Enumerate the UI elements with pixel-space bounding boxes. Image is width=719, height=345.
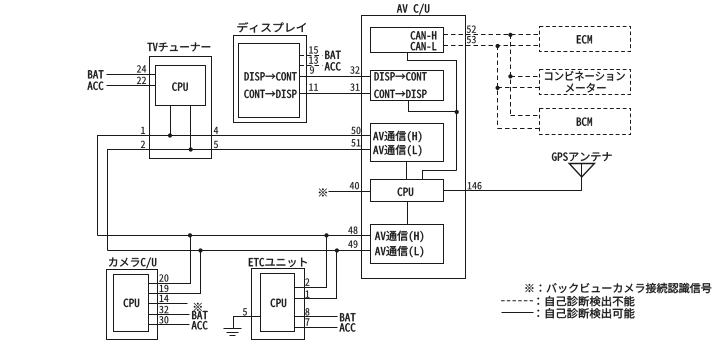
pin 52 label (467, 26, 476, 33)
wire BAT to TV tuner pin 24 (107, 74, 156, 76)
pin 8 label (305, 308, 309, 315)
wire ETC pin 5 to ground (234, 317, 261, 329)
AV-bus H lower wire (to AV C/U pin 48) (98, 235, 371, 237)
pin 32 label (350, 66, 359, 73)
ground symbol (224, 328, 242, 330)
pin 146 label (468, 182, 482, 189)
wire ACC to TV tuner pin 22 (107, 85, 156, 87)
junction dot ETC pin 1 (335, 248, 339, 252)
ETC unit ETCユニット label (249, 258, 307, 267)
AV通信(L) label lower (375, 246, 423, 257)
ACC label (camera) (192, 321, 208, 329)
pin 14 label (160, 295, 169, 302)
CONT→DISP label (display) (244, 90, 296, 98)
AV comm box lower (371, 225, 444, 264)
pin 1 label (ETC) (306, 291, 310, 298)
dashed CAN-H wire pin 52 to ECM (444, 34, 540, 36)
wire camera pin 14 backview signal (149, 303, 188, 305)
pin 53 label (467, 36, 476, 43)
wire ETC pin 1 to AV-bus L (295, 251, 337, 299)
pin 11 label (309, 84, 318, 91)
AV通信(H) label upper (373, 131, 421, 142)
wire camera pin 19 to AV-bus L (149, 251, 201, 294)
pin 13 label (309, 56, 318, 63)
GPS antenna symbol (569, 164, 594, 178)
legend note backview camera signal (525, 283, 711, 293)
camera unit カメラC/U label (109, 258, 156, 269)
pin 48 label (348, 227, 357, 234)
wire camera pin 30 ACC (149, 324, 190, 326)
junction dot internal bus (455, 110, 459, 114)
TV tuner unit TVチューナー label (147, 43, 210, 52)
wire display pin 11 to AV C/U pin 31 (300, 93, 371, 95)
wire camera pin 32 BAT (149, 314, 190, 316)
pin 2 label (141, 141, 145, 148)
AV通信(H) label lower (375, 231, 423, 242)
wire TV CPU pin to AV bus L (190, 106, 192, 150)
junction dot CAN-H branch (508, 33, 512, 37)
ACC label (TV tuner) (88, 82, 104, 90)
junction dot CPU-b (189, 147, 193, 151)
pin 9 label (310, 66, 314, 73)
AV C/U label (397, 4, 429, 15)
dashed wire to combination meter H (511, 76, 540, 78)
junction dot ETC pin 2 (324, 233, 328, 237)
dashed wire display pin 13 ACC (300, 65, 323, 67)
junction dot camera pin 20 (188, 233, 192, 237)
dashed wire to BCM L (498, 128, 540, 130)
CAN transceiver box (371, 28, 444, 53)
AV通信(L) label upper (373, 145, 421, 156)
display inner box (239, 44, 300, 118)
wire AV comm upper to CPU (406, 162, 408, 180)
pin 40 label (350, 182, 359, 189)
wire AV C/U pin 146 to GPS antenna (444, 164, 582, 191)
pin 19 label (160, 285, 169, 292)
wire pin 40 backview signal (329, 191, 371, 193)
CPU label (TV tuner) (172, 83, 187, 91)
wire display pin 9 to AV C/U pin 32 (300, 76, 371, 78)
pin 5 label (ETC) (243, 308, 247, 315)
display unit ディスプレイ label (237, 22, 305, 32)
BAT label (display) (325, 51, 340, 59)
dashed CAN-H vertical branch (510, 35, 512, 116)
pin 49 label (348, 240, 357, 247)
AV-bus H wire (pins 1/4 to AV C/U pin 50) (98, 136, 371, 236)
junction dot combination meter L (496, 86, 500, 90)
DISP→CONT label (AV C/U) (375, 72, 427, 80)
wire DISP box drop to internal bus (409, 101, 457, 112)
TV tuner outer box (150, 57, 212, 159)
legend solid meaning (537, 308, 634, 318)
pin 1 label (141, 127, 145, 134)
pin 24 label (137, 65, 146, 72)
junction dot camera pin 19 (198, 248, 202, 252)
dashed wire display pin 15 BAT (300, 55, 323, 57)
reference mark ※ at camera pin 14 (194, 303, 202, 311)
CPU label (AV C/U) (398, 188, 413, 196)
junction dot combination meter H (508, 74, 512, 78)
wire ETC pin 7 ACC (295, 327, 338, 329)
CONT→DISP label (AV C/U) (374, 90, 426, 98)
camera outer box (107, 270, 158, 340)
BAT label (TV tuner) (88, 70, 103, 78)
ACC label (display) (325, 62, 341, 70)
DISP→CONT label (display) (245, 72, 297, 80)
BCM box (540, 109, 631, 135)
pin 31 label (350, 84, 359, 91)
junction dot CPU-a (168, 133, 172, 137)
pin 50 label (351, 127, 360, 134)
BAT label (camera) (192, 311, 207, 319)
AV-bus L wire (pins 2/5 to AV C/U pin 51) (108, 150, 371, 251)
pin 4 label (214, 127, 218, 134)
CPU label (ETC) (271, 299, 286, 307)
wire TV CPU pin to AV bus H (170, 106, 172, 136)
wire CPU to AV comm lower (407, 202, 409, 225)
pin 32 label (camera) (159, 306, 168, 313)
CPU box (AV C/U) (371, 180, 444, 202)
wire internal bus to CPU (423, 171, 457, 180)
pin 5 label (214, 141, 218, 148)
CPU box (ETC) (261, 274, 295, 332)
wire CAN box to internal bus (408, 53, 457, 171)
junction dot CAN-L branch (496, 44, 500, 48)
wire ETC pin 8 BAT (295, 316, 338, 318)
AV comm box upper (371, 124, 444, 162)
CAN-H label (411, 31, 436, 39)
メーター label (566, 83, 606, 93)
CPU box (camera) (114, 275, 149, 332)
AV C/U outer box (362, 16, 466, 279)
pin 30 label (159, 316, 168, 323)
dashed wire to combination meter L (498, 87, 540, 89)
pin 20 label (159, 274, 168, 281)
AV-bus L lower wire (to AV C/U pin 49) (108, 250, 371, 252)
legend solid line sample (502, 312, 534, 314)
wire camera pin 20 to AV-bus H (149, 236, 191, 284)
pin 51 label (351, 139, 360, 146)
BCM label (577, 118, 592, 126)
CPU label (camera) (124, 299, 139, 307)
combination meter box (540, 70, 631, 95)
legend dashed meaning (537, 296, 634, 306)
DISP/CONT box (AV C/U) (371, 71, 444, 101)
dashed CAN-L vertical branch (497, 46, 499, 129)
wire ETC pin 2 to AV-bus H (295, 236, 327, 288)
BAT label (ETC) (340, 313, 355, 321)
display outer box (234, 36, 307, 123)
コンビネーション label (545, 71, 625, 81)
pin 7 label (305, 318, 309, 325)
pin 15 label (309, 46, 318, 53)
ACC label (ETC) (340, 323, 356, 331)
ETC outer box (252, 269, 305, 340)
GPSアンテナ label (552, 152, 612, 161)
ECM label (577, 35, 592, 43)
legend dashed line sample (501, 300, 533, 302)
CPU box (TV tuner) (156, 66, 206, 106)
ECM box (540, 27, 631, 52)
dashed wire to BCM H (511, 115, 540, 117)
dashed CAN-L wire pin 53 to ECM (444, 45, 540, 47)
pin 22 label (137, 77, 146, 84)
pin 2 label (ETC) (305, 278, 309, 285)
CAN-L label (411, 42, 437, 50)
reference mark ※ at pin 40 (319, 189, 327, 197)
